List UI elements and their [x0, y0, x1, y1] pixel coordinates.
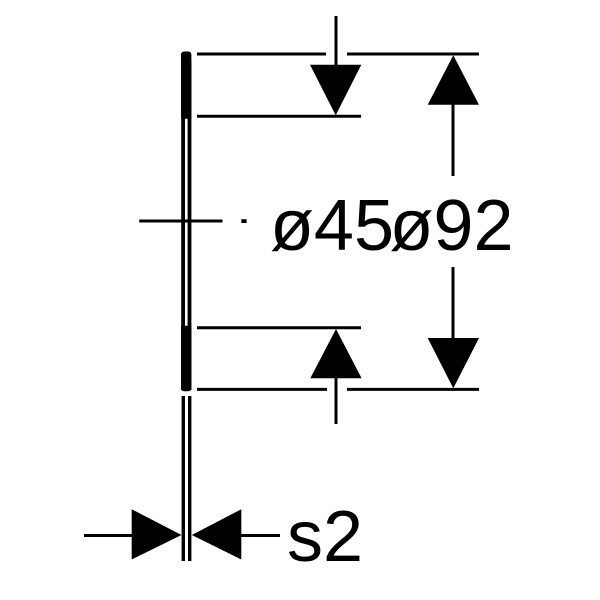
- svg-text:s2: s2: [287, 497, 363, 577]
- gasket hole edge right line: [188, 60, 192, 390]
- gasket hole edge left line: [181, 60, 185, 390]
- gasket solid top section: [181, 52, 191, 119]
- ø92 top extension line: [197, 53, 479, 56]
- ø92 bottom arrow (down): [428, 338, 479, 388]
- ø45 dimension leader top: [335, 16, 338, 68]
- s2 left arrow (points right): [132, 509, 182, 559]
- svg-text:ø92: ø92: [389, 186, 513, 266]
- s2 dimension line right: [239, 534, 280, 537]
- gasket solid bottom section: [181, 326, 191, 392]
- ø45 bottom extension line: [197, 326, 361, 329]
- pipe stub left line: [182, 396, 185, 561]
- ø92 dimension line lower segment: [452, 267, 455, 339]
- ø92 bottom extension line: [197, 388, 479, 391]
- svg-text:ø45: ø45: [270, 186, 394, 266]
- ø45 bottom arrow (up): [310, 329, 361, 378]
- ø45 dimension leader bottom: [335, 376, 338, 424]
- pipe stub right line: [188, 396, 191, 561]
- ø92 dimension line upper segment: [452, 104, 455, 176]
- centerline dot: [241, 219, 246, 223]
- s2 right arrow (points left): [192, 509, 242, 559]
- ø45 top arrow (down): [310, 65, 361, 115]
- s2 dimension line left: [84, 534, 134, 537]
- centerline dash: [139, 220, 222, 223]
- ø92 top arrow (up): [428, 55, 479, 104]
- ø45 top extension line: [197, 115, 361, 118]
